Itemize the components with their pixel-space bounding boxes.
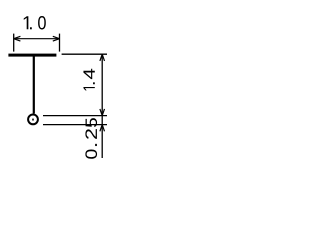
bob center dot [32, 118, 34, 120]
vertical dimension line [101, 54, 103, 158]
extension line from bar to 1.4 dimension [62, 53, 107, 55]
arrowhead right of 1.0 dimension [53, 36, 60, 41]
dimension text 1.0 digit 1 [24, 16, 29, 29]
extension line left of 1.0 dimension [13, 34, 15, 52]
dimension text 1.0 period [30, 27, 32, 29]
dimension text 0.25 period [95, 144, 97, 146]
arrowhead up at bar level [100, 54, 105, 61]
dimension text 0.25 digit 5 [86, 118, 98, 127]
pendulum bob circle [28, 115, 38, 125]
dimension text 1.4 digit 1 [83, 87, 94, 90]
arrowhead down at bob top [100, 109, 105, 116]
support bar [8, 54, 56, 57]
dimension text 1.0 digit 0 [38, 16, 46, 29]
dimension line 1.0 [14, 38, 60, 40]
dimension text 0.25 digit 2 [85, 129, 97, 139]
dimension text 1.4 digit 4 [83, 69, 94, 79]
extension line right of 1.0 dimension [59, 34, 61, 52]
dimension text 0.25 digit 0 [85, 149, 97, 158]
extension line upper of 0.25 dimension [43, 115, 107, 117]
extension line lower of 0.25 dimension [43, 124, 107, 126]
arrowhead left of 1.0 dimension [14, 36, 21, 41]
arrowhead up at bob bottom [100, 125, 105, 132]
pendulum rod [33, 56, 35, 113]
dimension text 1.4 period [93, 82, 95, 84]
